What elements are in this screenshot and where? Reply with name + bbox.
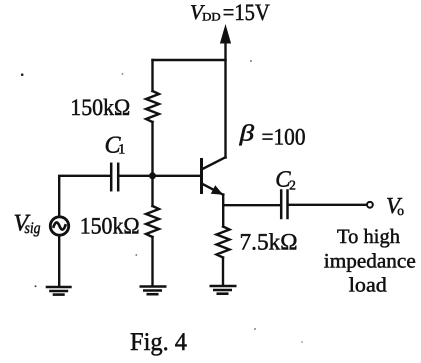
svg-text:150kΩ: 150kΩ <box>70 95 130 121</box>
svg-text:DD: DD <box>202 12 221 24</box>
svg-text:To high: To high <box>337 226 400 248</box>
svg-text:150kΩ: 150kΩ <box>80 213 140 239</box>
svg-text:o: o <box>397 203 404 218</box>
svg-text:1: 1 <box>118 142 125 157</box>
svg-text:Fig. 4: Fig. 4 <box>130 327 187 356</box>
svg-text:7.5kΩ: 7.5kΩ <box>239 230 297 256</box>
svg-text:load: load <box>349 275 387 297</box>
svg-text:β: β <box>238 121 254 146</box>
svg-text:=15V: =15V <box>223 0 270 26</box>
svg-text:2: 2 <box>289 178 296 193</box>
svg-text:sig: sig <box>24 220 40 237</box>
svg-text:impedance: impedance <box>324 251 416 273</box>
svg-text:=100: =100 <box>262 125 306 151</box>
